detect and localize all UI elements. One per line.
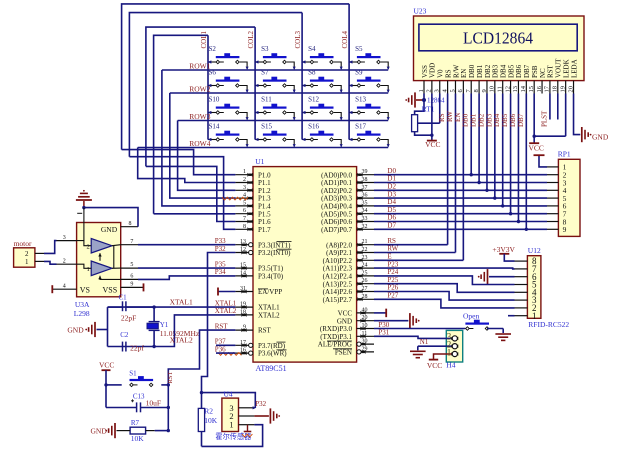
svg-text:ROW3: ROW3 (189, 112, 210, 121)
wire net DB5 (501, 94, 512, 216)
LCD pin 2 (426, 81, 433, 94)
svg-text:ROW4: ROW4 (189, 139, 210, 148)
pushbutton S9 (349, 69, 390, 94)
svg-text:P1.3: P1.3 (258, 195, 271, 203)
svg-text:EN: EN (460, 69, 468, 78)
svg-text:VSS: VSS (103, 286, 118, 295)
LCD12864 title (463, 28, 533, 47)
LCD pin name DB5 (507, 64, 515, 78)
wire P37 stub (215, 338, 236, 346)
pushbutton S17 (349, 123, 390, 148)
svg-text:P26: P26 (387, 284, 398, 292)
U12 pin 1 (515, 311, 537, 321)
power bar U4 (244, 425, 252, 432)
svg-text:(A14)P2.6: (A14)P2.6 (323, 288, 353, 296)
RP1 pin 9 (547, 225, 567, 234)
U1 pin 12 P3.2(INT0) (235, 247, 291, 257)
svg-text:VDD: VDD (429, 63, 437, 78)
svg-text:1: 1 (243, 169, 246, 175)
svg-text:PLST: PLST (540, 110, 548, 127)
svg-text:S10: S10 (209, 96, 220, 104)
svg-text:3: 3 (243, 185, 246, 191)
svg-text:E: E (387, 253, 391, 261)
net label COL3 (294, 31, 302, 49)
LCD pin name VSS (421, 65, 429, 78)
net label P23 (387, 260, 398, 268)
power +3V3V (492, 245, 515, 261)
pushbutton S13 (349, 96, 390, 121)
svg-text:P3.3(INT1): P3.3(INT1) (258, 241, 291, 249)
wire U1 gnd (374, 320, 408, 322)
wire ROW4 bus (138, 147, 389, 149)
wire net EN (454, 94, 464, 261)
svg-text:P3.5(T1): P3.5(T1) (258, 265, 284, 273)
svg-text:DB5: DB5 (507, 64, 515, 78)
wire RT1 bottom to VCC rail (415, 132, 434, 137)
U1 pin 22 P2.1 (326, 247, 374, 257)
svg-text:(AD3)P0.3: (AD3)P0.3 (321, 195, 352, 203)
LCD pin 3 (434, 81, 441, 94)
wire Open to gnd (487, 329, 503, 334)
svg-text:L298: L298 (74, 309, 90, 318)
svg-text:10: 10 (362, 323, 368, 329)
L298 pin 9 (121, 282, 144, 292)
U12 pin 6 (515, 272, 537, 282)
U1 pin 33 P0.6 (321, 216, 374, 226)
svg-text:3: 3 (434, 89, 441, 92)
LCD pin name RS (444, 69, 452, 78)
wire P23 to U12 pin7 (374, 267, 515, 270)
U1 pin 6 P1.5 (235, 208, 271, 218)
svg-text:C2: C2 (120, 331, 129, 339)
svg-text:R/W: R/W (452, 64, 460, 78)
pushbutton S6 (207, 69, 248, 94)
svg-text:RP1: RP1 (558, 150, 571, 159)
U1 pin 1 P1.0 (235, 169, 271, 179)
svg-text:33: 33 (362, 216, 368, 222)
switch Open (463, 311, 489, 330)
svg-text:COL4: COL4 (341, 31, 349, 49)
U3A designator (75, 300, 90, 309)
capacitor C1 (108, 301, 155, 322)
wire net D5 (374, 206, 547, 214)
L298 pin 3 (57, 235, 77, 241)
svg-text:P25: P25 (387, 276, 398, 284)
svg-text:(AD7)P0.7: (AD7)P0.7 (321, 226, 352, 234)
svg-text:P1.5: P1.5 (258, 210, 271, 218)
wire P25 to U12 pin4 (374, 284, 515, 293)
wire U12 pin1 stub (508, 315, 515, 317)
LCD pin name R/W (452, 64, 460, 78)
svg-text:P27: P27 (387, 292, 398, 300)
U1 pin 3 P1.2 (235, 185, 271, 195)
svg-text:C1: C1 (119, 294, 128, 302)
U1 pin 11 (TXD)P3.1 (320, 331, 374, 341)
svg-text:S16: S16 (308, 123, 319, 131)
svg-text:XTAL2: XTAL2 (215, 307, 237, 315)
wire net DB3 (485, 94, 496, 200)
svg-text:(A9)P2.1: (A9)P2.1 (326, 249, 352, 257)
svg-text:10: 10 (489, 86, 496, 93)
svg-text:VCC: VCC (427, 361, 442, 370)
L298 part name (74, 309, 90, 318)
svg-text:S17: S17 (355, 123, 366, 131)
svg-text:XTAL2: XTAL2 (258, 312, 280, 320)
svg-text:(RXD)P3.0: (RXD)P3.0 (320, 325, 353, 333)
L298 VS label (80, 286, 90, 295)
svg-text:D2: D2 (387, 183, 396, 191)
svg-text:17: 17 (240, 340, 246, 346)
wire COL2 vertical (254, 27, 256, 139)
svg-text:8: 8 (243, 224, 246, 230)
LCD pin 8 (473, 81, 480, 94)
LCD pin name VOUT (555, 58, 563, 78)
wire net D2 (374, 183, 547, 191)
power VCC LCD (425, 135, 440, 149)
LCD pin 7 (465, 81, 472, 94)
svg-text:ALE/PROG: ALE/PROG (318, 341, 352, 349)
svg-text:1: 1 (418, 89, 425, 92)
svg-text:RT1: RT1 (422, 105, 435, 114)
svg-text:24: 24 (362, 263, 368, 269)
wire COL4 top (122, 4, 350, 150)
overline EA (258, 288, 268, 290)
svg-text:DB3: DB3 (485, 113, 493, 127)
LCD pin name DB0 (468, 64, 476, 78)
wire E horizontal (374, 259, 463, 261)
resistor pack RP1 body (558, 159, 580, 236)
LCD pin name VDD (429, 63, 437, 78)
pushbutton S4 (302, 45, 343, 70)
svg-text:S4: S4 (308, 45, 316, 53)
connector H4 body (446, 330, 462, 369)
connector U4 body (222, 398, 239, 431)
wire XTAL1 net (108, 297, 237, 309)
wire VCC rail down (105, 385, 107, 408)
wire COL3 top (129, 13, 302, 157)
U1 pin 24 P2.3 (323, 263, 374, 273)
wire COL4 vertical (348, 4, 350, 140)
LCD pin 9 (481, 81, 488, 94)
svg-text:12: 12 (504, 86, 511, 93)
svg-text:37: 37 (362, 185, 368, 191)
overline PSEN (333, 348, 352, 350)
U1 pin 34 P0.5 (321, 208, 374, 218)
wire VCC to S1 (104, 383, 121, 386)
svg-text:25: 25 (362, 270, 368, 276)
svg-text:(A13)P2.5: (A13)P2.5 (323, 280, 353, 288)
svg-text:S14: S14 (209, 123, 220, 131)
U1 pin 30 ALE/PROG (318, 339, 374, 349)
svg-text:(AD5)P0.5: (AD5)P0.5 (321, 210, 352, 218)
wire net D6 (374, 214, 547, 222)
wire P31 (374, 329, 452, 339)
connector motor body (14, 248, 35, 267)
wire net D7 (374, 222, 547, 230)
wire ROW1 bus (162, 69, 388, 71)
U4 designator (224, 390, 233, 399)
capacitor C2 (120, 331, 144, 353)
U1 pin 27 P2.6 (323, 286, 374, 296)
wire net RW (446, 94, 456, 253)
svg-text:C13: C13 (133, 392, 145, 400)
svg-text:Open: Open (463, 311, 479, 320)
U4 label chinese (215, 432, 251, 441)
U1 pin 8 P1.7 (235, 224, 271, 234)
svg-text:LEDA: LEDA (570, 59, 578, 78)
wire P30 (374, 321, 465, 329)
svg-text:P33: P33 (215, 237, 226, 245)
ground U1 pin20 (410, 313, 420, 328)
svg-text:38: 38 (362, 177, 368, 183)
wire P32 to U4 (200, 391, 256, 394)
wire H4 pin1 VCC (427, 354, 452, 370)
net label ROW1 (189, 62, 210, 71)
svg-text:P30: P30 (378, 321, 389, 329)
wire P36 squiggle (218, 353, 241, 356)
LCD pin 4 (441, 81, 448, 94)
wire net DB6 (509, 94, 520, 224)
svg-text:22: 22 (362, 247, 368, 253)
wire net DB4 (493, 94, 504, 208)
LCD pin name DB7 (523, 64, 531, 78)
svg-text:RST: RST (258, 327, 272, 335)
LCD pin name RST (547, 64, 555, 78)
U1 pin 17 P3.7(RD) (235, 340, 285, 350)
svg-text:D6: D6 (387, 214, 396, 222)
LCD pin 17 (544, 81, 551, 94)
svg-text:S15: S15 (261, 123, 272, 131)
ground Open (495, 334, 511, 340)
wire L298 internal en1 (98, 253, 101, 261)
U1 pin 10 (RXD)P3.0 (320, 323, 374, 333)
svg-text:5: 5 (449, 89, 456, 92)
LCD pin name V0 (437, 69, 445, 78)
LCD pin name DB4 (500, 64, 508, 78)
wire U4 pin2 gnd (254, 415, 269, 417)
svg-text:DB2: DB2 (484, 64, 492, 78)
wire L298 internal in1 (77, 264, 92, 268)
svg-text:7: 7 (130, 239, 133, 245)
svg-text:P32: P32 (255, 400, 266, 408)
wire U4 pin3 up (253, 393, 267, 410)
svg-text:U23: U23 (414, 7, 427, 16)
svg-text:P24: P24 (387, 268, 398, 276)
wire net RS (438, 94, 448, 245)
L298 GND label (101, 225, 118, 234)
svg-text:RW: RW (446, 111, 454, 122)
svg-text:23: 23 (362, 255, 368, 261)
svg-text:(A8)P2.0: (A8)P2.0 (326, 241, 352, 249)
svg-text:D5: D5 (387, 206, 396, 214)
LCD pin name LEDK (562, 59, 570, 78)
wire P36 stub (215, 345, 236, 353)
U1 pin 2 P1.1 (235, 177, 271, 187)
svg-text:1: 1 (25, 258, 29, 266)
svg-text:DB2: DB2 (477, 113, 485, 127)
wire PSB to VCC (532, 94, 565, 138)
svg-text:P3.2(INT0): P3.2(INT0) (258, 249, 291, 257)
svg-text:7: 7 (243, 216, 246, 222)
op-amp 1 (87, 261, 113, 276)
svg-text:28: 28 (362, 294, 368, 300)
svg-text:35: 35 (362, 200, 368, 206)
svg-text:D3: D3 (387, 190, 396, 198)
U23 designator (414, 7, 427, 16)
svg-text:RW: RW (387, 245, 398, 253)
svg-text:2: 2 (25, 250, 29, 258)
ground U4 (270, 408, 280, 423)
svg-text:DB0: DB0 (468, 64, 476, 78)
svg-text:(AD2)P0.2: (AD2)P0.2 (321, 187, 352, 195)
wire RW horizontal (374, 252, 455, 254)
wire LEDA to GND (574, 94, 581, 135)
svg-text:13: 13 (512, 86, 519, 93)
svg-text:19: 19 (559, 86, 566, 93)
U1 pin 31 EA/VPP (235, 286, 282, 296)
svg-text:15: 15 (240, 263, 246, 269)
wire L298 internal en2 (98, 276, 120, 280)
svg-text:COL3: COL3 (294, 31, 302, 49)
wire RST net (167, 322, 236, 430)
wire left xtal rail (97, 307, 108, 346)
svg-text:S13: S13 (355, 96, 366, 104)
resistor R7 (117, 419, 171, 443)
U1 part name (256, 364, 287, 373)
LCD pin 19 (559, 81, 566, 94)
svg-text:D7: D7 (387, 222, 396, 230)
svg-text:17: 17 (544, 85, 551, 92)
svg-text:S8: S8 (308, 69, 316, 77)
wire P27 to U12 pin2 (374, 299, 515, 308)
LCD pin 11 (497, 81, 504, 94)
svg-text:S1: S1 (129, 369, 137, 377)
svg-text:DB1: DB1 (476, 64, 484, 78)
motor pin 1 (25, 258, 44, 266)
wire P34 (138, 268, 235, 279)
U1 pin 16 P3.6(WR) (235, 348, 287, 358)
svg-text:2: 2 (63, 258, 66, 264)
svg-text:U1: U1 (255, 157, 264, 166)
svg-text:S9: S9 (355, 69, 363, 77)
wire VSS to RT1 top (415, 100, 424, 115)
svg-text:P36: P36 (215, 345, 226, 353)
U12 pin 5 (515, 280, 537, 290)
svg-text:LEDK: LEDK (562, 59, 570, 78)
svg-text:6: 6 (243, 208, 246, 214)
svg-text:XTAL1: XTAL1 (215, 299, 237, 307)
svg-text:COL1: COL1 (200, 31, 208, 49)
svg-text:VCC: VCC (529, 143, 544, 152)
wire ROW2 to P1.3 (170, 93, 236, 198)
U1 pin 7 P1.6 (235, 216, 271, 226)
net label E (387, 253, 391, 261)
wire L298 internal out1 (112, 267, 121, 269)
svg-text:15: 15 (528, 86, 535, 93)
svg-text:XTAL2: XTAL2 (170, 336, 193, 345)
svg-text:2: 2 (87, 244, 90, 251)
svg-text:DB1: DB1 (470, 113, 478, 127)
wire RS horizontal (374, 244, 448, 246)
L298 pin 2 (57, 258, 77, 264)
RP1 designator (558, 150, 571, 159)
L298 VSS label (103, 286, 118, 295)
svg-text:10K: 10K (131, 434, 145, 443)
U1 pin 26 P2.5 (323, 278, 374, 288)
wire COL1 top (154, 35, 208, 214)
wire VOUT stub (557, 94, 559, 120)
wire motor2 to L298 pin3 (44, 241, 57, 254)
overline INT0 (277, 248, 292, 250)
H4 pin 2 (447, 340, 459, 350)
svg-text:EA/VPP: EA/VPP (258, 288, 282, 296)
svg-text:R2: R2 (204, 407, 213, 416)
ground LEDA (582, 127, 609, 142)
wire ROW1 to P1.4 (162, 70, 236, 206)
wire net PLST (540, 94, 550, 128)
svg-text:AT89C51: AT89C51 (256, 364, 287, 373)
svg-text:10uF: 10uF (146, 398, 161, 407)
svg-text:40: 40 (362, 307, 368, 313)
pushbutton S8 (302, 69, 343, 94)
svg-text:12: 12 (240, 247, 246, 253)
svg-text:RS: RS (438, 113, 446, 122)
svg-text:P3.6(WR): P3.6(WR) (258, 350, 287, 358)
wire ROW3 bus (178, 120, 389, 122)
LCD pin 12 (504, 81, 511, 94)
L298 pin 7 (121, 239, 138, 245)
U4 pin 1 (229, 420, 254, 430)
svg-text:D0: D0 (387, 167, 396, 175)
net label COL4 (341, 31, 349, 49)
svg-text:motor: motor (14, 239, 32, 248)
RP1 pin 1 (547, 163, 567, 172)
U1 pin 19 XTAL1 (235, 302, 280, 312)
svg-text:1: 1 (447, 347, 452, 357)
svg-text:34: 34 (362, 208, 368, 214)
LCD pin 6 (457, 81, 464, 94)
U12 pin 4 (515, 287, 537, 297)
svg-text:PSB: PSB (531, 65, 539, 78)
svg-text:V0: V0 (437, 69, 445, 78)
U12 designator (528, 246, 541, 255)
svg-text:31: 31 (240, 286, 246, 292)
wire P33 (138, 237, 235, 245)
svg-text:P23: P23 (387, 260, 398, 268)
wire net D0 (374, 167, 547, 175)
svg-text:P1.1: P1.1 (258, 179, 271, 187)
svg-text:P1.7: P1.7 (258, 226, 271, 234)
svg-text:VCC: VCC (99, 360, 114, 369)
net label 12864 (427, 97, 445, 105)
net label P24 (387, 268, 398, 276)
U1 pin 5 P1.4 (235, 200, 271, 210)
U1 designator (255, 157, 264, 166)
svg-text:P32: P32 (215, 245, 226, 253)
power VCC S1 (99, 360, 114, 385)
net label RS (387, 237, 396, 245)
svg-text:RFID-RC522: RFID-RC522 (528, 320, 569, 329)
svg-text:10K: 10K (204, 416, 218, 425)
wire L298 internal link (113, 246, 115, 269)
pushbutton S12 (302, 96, 343, 121)
wire net D4 (374, 198, 547, 206)
power VCC PSB (529, 136, 539, 143)
RP1 pin 8 (547, 217, 567, 226)
U12 pin 3 (515, 295, 537, 305)
LCD pin 1 (418, 81, 425, 94)
LCD pin name NC (539, 68, 547, 78)
